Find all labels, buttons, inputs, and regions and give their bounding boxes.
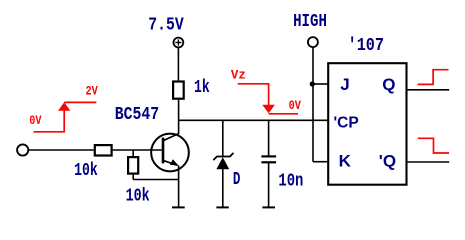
svg-text:J: J: [340, 75, 349, 94]
input terminal: [17, 144, 28, 155]
svg-text:'107: '107: [348, 36, 384, 56]
wire supply to R3: [177, 48, 179, 81]
ground (emitter): [172, 206, 185, 208]
wire 'Q output: [407, 161, 450, 163]
ground (zener): [216, 206, 228, 208]
svg-text:'CP: 'CP: [334, 115, 359, 132]
svg-text:Vz: Vz: [231, 68, 246, 82]
wire collector vertical: [178, 100, 180, 134]
svg-text:D: D: [233, 170, 241, 190]
resistor R2 10k (base pulldown): [132, 150, 134, 156]
svg-text:7.5V: 7.5V: [148, 16, 184, 36]
svg-text:Q: Q: [382, 75, 395, 94]
wire K branch: [313, 161, 328, 163]
red arrowhead (falling edge, points down): [262, 105, 275, 113]
svg-text:10k: 10k: [74, 161, 98, 181]
zener diode D: [213, 120, 233, 207]
transistor Q1 BC547: [151, 134, 189, 172]
resistor R3 1k: [173, 82, 184, 99]
wire J branch: [312, 83, 328, 85]
ground (capacitor): [262, 206, 275, 208]
red waveform: input step 0V to 2V: [34, 102, 97, 131]
svg-text:K: K: [339, 151, 352, 170]
svg-text:1k: 1k: [194, 78, 210, 98]
wire HIGH vertical to J and K: [312, 47, 314, 162]
svg-text:0V: 0V: [29, 114, 42, 128]
IC U1 '107 JK flip-flop body: [328, 63, 406, 185]
svg-text:10n: 10n: [278, 171, 303, 191]
resistor R1 10k (series input): [95, 145, 112, 155]
red waveform: 'Q falling edge: [418, 138, 449, 153]
power terminal +7.5V: [174, 38, 184, 48]
wire Q output: [407, 89, 450, 91]
red waveform: Q rising edge: [418, 70, 449, 85]
wire collector node to CP: [179, 119, 328, 121]
wire input to R1: [28, 149, 93, 151]
svg-text:'Q: 'Q: [379, 152, 396, 171]
red arrowhead (rising edge, points up): [58, 102, 70, 111]
svg-text:0V: 0V: [289, 99, 302, 113]
wire emitter vertical: [178, 166, 180, 208]
svg-text:BC547: BC547: [115, 105, 159, 125]
svg-text:2V: 2V: [86, 84, 99, 98]
terminal HIGH: [308, 37, 318, 47]
junction dot (J branch): [310, 81, 315, 86]
wire R1 to base: [113, 149, 163, 151]
red waveform: Vz falling edge annotation: [238, 84, 298, 114]
wire R2 bottom to emitter: [133, 179, 178, 181]
svg-text:HIGH: HIGH: [293, 12, 327, 32]
capacitor C1 10n: [261, 120, 276, 207]
svg-text:10k: 10k: [126, 187, 150, 207]
